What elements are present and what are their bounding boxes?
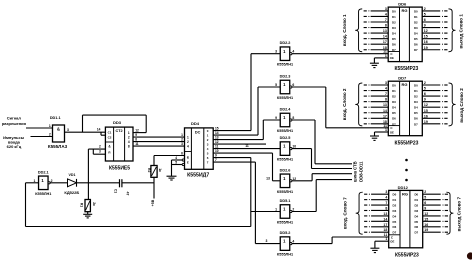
svg-text:DD2.3: DD2.3 xyxy=(280,74,291,78)
svg-text:шина СТВ: шина СТВ xyxy=(353,161,358,182)
svg-text:4: 4 xyxy=(385,196,387,200)
svg-text:4: 4 xyxy=(385,87,387,91)
svg-text:1: 1 xyxy=(275,208,277,212)
svg-text:D7: D7 xyxy=(414,122,418,126)
svg-text:2: 2 xyxy=(424,190,426,194)
svg-text:1: 1 xyxy=(385,54,387,58)
svg-text:3: 3 xyxy=(266,239,268,243)
svg-text:12: 12 xyxy=(292,177,296,181)
svg-text:4: 4 xyxy=(292,240,294,244)
svg-text:6: 6 xyxy=(424,18,426,22)
svg-text:D4: D4 xyxy=(392,106,396,110)
svg-text:RG: RG xyxy=(402,82,408,87)
svg-text:D7: D7 xyxy=(414,231,418,235)
svg-text:8: 8 xyxy=(128,145,130,149)
svg-text:D5: D5 xyxy=(414,220,418,224)
svg-text:5: 5 xyxy=(275,83,277,87)
svg-text:1: 1 xyxy=(33,179,35,183)
svg-text:вход. Слово 1: вход. Слово 1 xyxy=(342,14,347,46)
svg-text:15: 15 xyxy=(424,35,428,39)
svg-text:D6: D6 xyxy=(414,117,418,121)
svg-text:9: 9 xyxy=(424,98,426,102)
svg-text:5: 5 xyxy=(424,196,426,200)
svg-text:E: E xyxy=(187,161,189,165)
svg-text:К555ИР23: К555ИР23 xyxy=(395,140,419,146)
svg-text:D3: D3 xyxy=(392,100,396,104)
svg-text:2: 2 xyxy=(181,138,183,142)
svg-text:DC: DC xyxy=(195,130,201,134)
svg-text:2: 2 xyxy=(128,136,130,140)
svg-text:D4: D4 xyxy=(414,106,418,110)
svg-text:14: 14 xyxy=(97,128,101,132)
svg-text:D0: D0 xyxy=(392,9,396,13)
svg-text:К555ЛН1: К555ЛН1 xyxy=(277,96,293,100)
svg-text:К555ЛН1: К555ЛН1 xyxy=(277,253,293,257)
svg-text:+5В: +5В xyxy=(151,199,155,206)
svg-text:4: 4 xyxy=(175,156,177,160)
svg-text:16: 16 xyxy=(424,223,428,227)
svg-text:14: 14 xyxy=(383,217,387,221)
svg-text:OE: OE xyxy=(390,240,394,244)
svg-text:разрешения: разрешения xyxy=(2,121,27,126)
svg-text:D3: D3 xyxy=(392,209,396,213)
svg-text:620 кГц: 620 кГц xyxy=(7,144,22,149)
svg-text:D7: D7 xyxy=(392,122,396,126)
svg-text:7: 7 xyxy=(385,201,387,205)
svg-text:OE: OE xyxy=(390,56,394,60)
svg-text:1: 1 xyxy=(49,124,51,128)
svg-text:CT2: CT2 xyxy=(116,129,123,133)
svg-text:DD2.6: DD2.6 xyxy=(280,168,291,172)
svg-text:13: 13 xyxy=(383,29,387,33)
svg-text:D6: D6 xyxy=(414,43,418,47)
svg-text:16: 16 xyxy=(424,40,428,44)
svg-text:OE: OE xyxy=(390,130,394,134)
svg-text:4: 4 xyxy=(292,50,294,54)
svg-text:1: 1 xyxy=(187,135,189,139)
svg-text:2к: 2к xyxy=(92,202,96,206)
svg-text:8: 8 xyxy=(385,24,387,28)
svg-text:DD8-DD11: DD8-DD11 xyxy=(359,161,364,182)
svg-text:18: 18 xyxy=(383,228,387,232)
svg-text:5: 5 xyxy=(424,87,426,91)
svg-text:D0: D0 xyxy=(414,193,418,197)
svg-text:17: 17 xyxy=(383,114,387,118)
svg-text:D1: D1 xyxy=(414,15,418,19)
svg-text:К555ЛН1: К555ЛН1 xyxy=(277,63,293,67)
svg-text:12: 12 xyxy=(424,29,428,33)
svg-text:DD1.1: DD1.1 xyxy=(50,116,61,120)
svg-text:D1: D1 xyxy=(392,15,396,19)
svg-text:D2: D2 xyxy=(392,95,396,99)
svg-text:D5: D5 xyxy=(392,37,396,41)
svg-text:К555ЛН1: К555ЛН1 xyxy=(277,190,293,194)
svg-text:12: 12 xyxy=(135,129,139,133)
svg-text:2: 2 xyxy=(99,145,101,149)
svg-text:К555ЛН1: К555ЛН1 xyxy=(35,192,51,196)
svg-text:3: 3 xyxy=(385,190,387,194)
svg-text:RG: RG xyxy=(401,8,407,13)
svg-text:1: 1 xyxy=(385,128,387,132)
svg-text:D5: D5 xyxy=(392,111,396,115)
svg-text:6: 6 xyxy=(292,83,294,87)
svg-text:К555ИР23: К555ИР23 xyxy=(395,252,419,258)
svg-text:15: 15 xyxy=(424,217,428,221)
svg-text:C2: C2 xyxy=(108,136,112,140)
svg-text:D6: D6 xyxy=(392,43,396,47)
svg-text:D3: D3 xyxy=(414,209,418,213)
svg-text:2: 2 xyxy=(187,140,189,144)
svg-text:5: 5 xyxy=(175,160,177,164)
svg-text:К555ИР23: К555ИР23 xyxy=(394,66,418,72)
svg-text:12: 12 xyxy=(424,212,428,216)
svg-text:15: 15 xyxy=(424,109,428,113)
svg-text:4: 4 xyxy=(187,144,189,148)
svg-text:D1: D1 xyxy=(414,198,418,202)
svg-text:выход Слово 7: выход Слово 7 xyxy=(457,197,462,232)
svg-text:D3: D3 xyxy=(392,26,396,30)
svg-text:8: 8 xyxy=(385,98,387,102)
svg-text:1: 1 xyxy=(385,237,387,241)
svg-text:D4: D4 xyxy=(392,214,396,218)
svg-text:8: 8 xyxy=(135,138,137,142)
svg-text:D7: D7 xyxy=(392,48,396,52)
svg-text:D0: D0 xyxy=(392,83,396,87)
svg-text:D5: D5 xyxy=(414,37,418,41)
svg-text:DD6: DD6 xyxy=(398,2,407,7)
svg-text:D2: D2 xyxy=(392,203,396,207)
svg-text:D7: D7 xyxy=(414,48,418,52)
svg-text:D5: D5 xyxy=(392,220,396,224)
svg-text:D2: D2 xyxy=(392,20,396,24)
svg-text:D2: D2 xyxy=(414,20,418,24)
svg-text:8: 8 xyxy=(385,206,387,210)
svg-text:D4: D4 xyxy=(414,32,418,36)
svg-text:D1: D1 xyxy=(414,89,418,93)
svg-text:17: 17 xyxy=(383,40,387,44)
svg-text:9: 9 xyxy=(135,133,137,137)
svg-text:D2: D2 xyxy=(414,203,418,207)
svg-text:9: 9 xyxy=(275,116,277,120)
svg-text:RG: RG xyxy=(402,191,408,196)
svg-text:14: 14 xyxy=(383,35,387,39)
svg-text:DD2.1: DD2.1 xyxy=(38,170,49,174)
svg-text:R1: R1 xyxy=(79,203,83,207)
svg-text:13: 13 xyxy=(383,212,387,216)
svg-text:11: 11 xyxy=(135,142,139,146)
svg-text:3: 3 xyxy=(181,142,183,146)
svg-text:DD2.4: DD2.4 xyxy=(280,107,292,111)
svg-text:13: 13 xyxy=(383,103,387,107)
svg-text:К555ИЕ5: К555ИЕ5 xyxy=(109,165,130,171)
svg-text:5: 5 xyxy=(424,12,426,16)
svg-text:выход Слово 2: выход Слово 2 xyxy=(459,88,464,123)
svg-text:7: 7 xyxy=(385,18,387,22)
svg-text:D2: D2 xyxy=(414,95,418,99)
svg-text:6: 6 xyxy=(181,151,183,155)
svg-text:К555ЛН1: К555ЛН1 xyxy=(277,220,293,224)
svg-text:DD4: DD4 xyxy=(191,121,200,126)
svg-text:2: 2 xyxy=(424,7,426,11)
svg-text:D3: D3 xyxy=(414,26,418,30)
svg-text:4: 4 xyxy=(385,12,387,16)
svg-text:D5: D5 xyxy=(414,111,418,115)
svg-text:D1: D1 xyxy=(392,198,396,202)
svg-text:19: 19 xyxy=(424,120,428,124)
svg-text:DD3: DD3 xyxy=(113,120,122,125)
svg-text:12: 12 xyxy=(424,103,428,107)
svg-text:2: 2 xyxy=(51,179,53,183)
svg-text:9: 9 xyxy=(424,24,426,28)
svg-text:2: 2 xyxy=(424,81,426,85)
svg-text:DD12: DD12 xyxy=(398,185,409,190)
svg-text:3: 3 xyxy=(385,81,387,85)
svg-text:9: 9 xyxy=(424,206,426,210)
svg-text:3: 3 xyxy=(385,7,387,11)
svg-text:13: 13 xyxy=(266,176,270,180)
svg-text:R2: R2 xyxy=(147,168,151,172)
svg-text:К555ЛН1: К555ЛН1 xyxy=(277,129,293,133)
svg-text:3: 3 xyxy=(67,128,69,132)
svg-text:16: 16 xyxy=(424,114,428,118)
svg-text:К555ЛА3: К555ЛА3 xyxy=(48,144,68,149)
svg-text:D6: D6 xyxy=(414,225,418,229)
svg-text:17: 17 xyxy=(383,223,387,227)
svg-text:DD2.5: DD2.5 xyxy=(280,136,291,140)
svg-text:VD1: VD1 xyxy=(69,173,76,177)
svg-text:19: 19 xyxy=(424,46,428,50)
svg-text:DD7: DD7 xyxy=(398,76,407,81)
svg-text:D4: D4 xyxy=(392,32,396,36)
svg-text:C1: C1 xyxy=(108,131,112,135)
svg-text:КД522Б: КД522Б xyxy=(64,190,79,195)
svg-text:1: 1 xyxy=(128,131,130,135)
svg-text:8: 8 xyxy=(292,116,294,120)
svg-text:D0: D0 xyxy=(392,193,396,197)
svg-text:вход. Слово 2: вход. Слово 2 xyxy=(342,88,347,120)
svg-text:C1: C1 xyxy=(114,189,118,193)
svg-text:1: 1 xyxy=(181,133,183,137)
svg-text:6: 6 xyxy=(424,201,426,205)
svg-text:D3: D3 xyxy=(414,100,418,104)
svg-text:7: 7 xyxy=(385,92,387,96)
svg-text:3: 3 xyxy=(99,150,101,154)
svg-text:10: 10 xyxy=(292,145,296,149)
svg-text:Сигнал: Сигнал xyxy=(7,116,22,121)
svg-text:D6: D6 xyxy=(392,117,396,121)
svg-text:вход. Слово 7: вход. Слово 7 xyxy=(343,197,348,229)
svg-text:19: 19 xyxy=(424,228,428,232)
svg-text:3: 3 xyxy=(275,50,277,54)
svg-text:D4: D4 xyxy=(414,214,418,218)
svg-text:D1: D1 xyxy=(392,89,396,93)
svg-text:D6: D6 xyxy=(392,225,396,229)
svg-text:DD5.2: DD5.2 xyxy=(280,231,291,235)
svg-text:DD2.2: DD2.2 xyxy=(280,41,291,45)
svg-text:2: 2 xyxy=(49,132,51,136)
svg-text:К555ЛН1: К555ЛН1 xyxy=(277,158,293,162)
svg-text:1к: 1к xyxy=(158,168,162,172)
svg-text:D7: D7 xyxy=(392,231,396,235)
svg-text:DD5.1: DD5.1 xyxy=(280,199,291,203)
svg-text:4: 4 xyxy=(128,140,130,144)
svg-text:14: 14 xyxy=(383,109,387,113)
svg-text:К555ИД7: К555ИД7 xyxy=(187,173,209,179)
svg-text:D0: D0 xyxy=(414,9,418,13)
svg-text:2: 2 xyxy=(292,208,294,212)
svg-text:47: 47 xyxy=(125,192,129,196)
svg-text:6: 6 xyxy=(424,92,426,96)
svg-text:D0: D0 xyxy=(414,83,418,87)
svg-text:выход Слово 1: выход Слово 1 xyxy=(459,14,464,49)
